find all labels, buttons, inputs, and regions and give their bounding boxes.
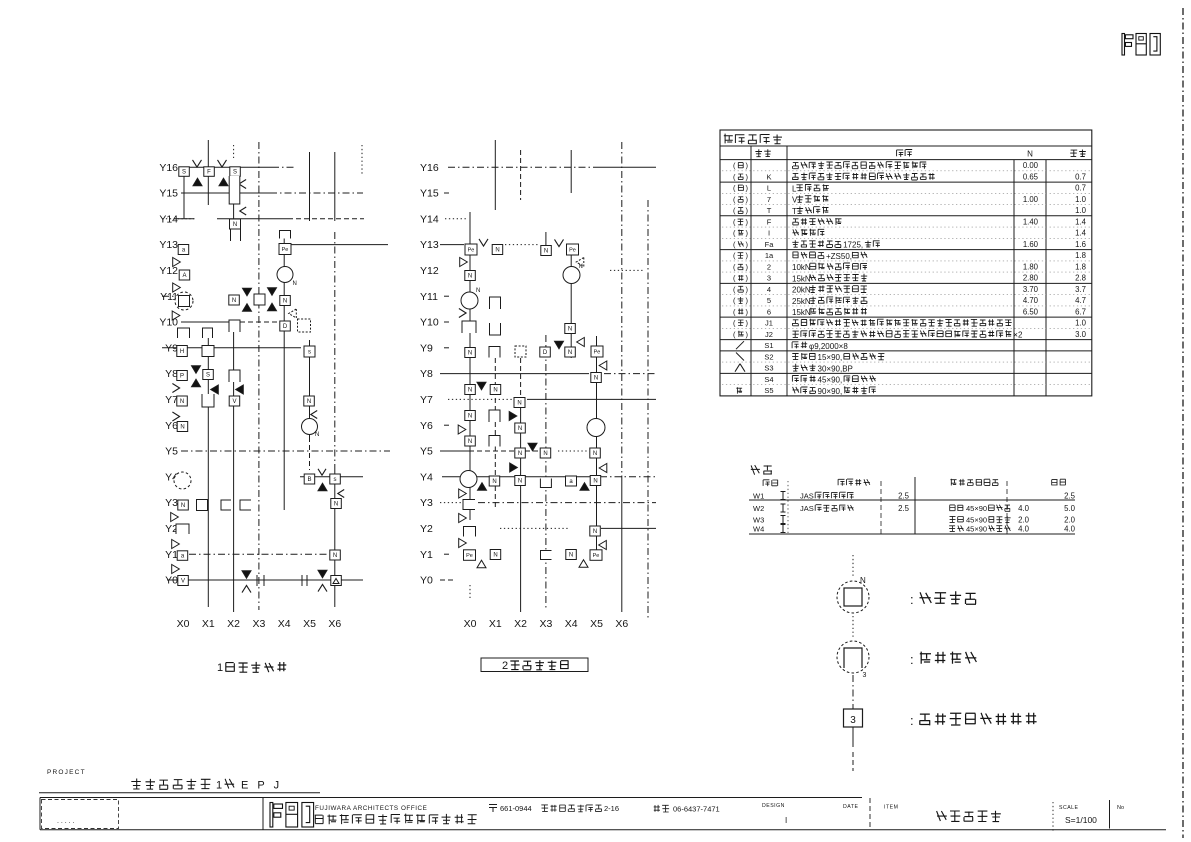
table1 row 2 [720, 173, 1092, 183]
grid line Y6 (1F) with label [165, 420, 186, 432]
table1 row 9 [722, 251, 1090, 261]
project name 尼崎市水堂町1丁EPJ [131, 779, 282, 792]
wall tab @1F X0/Y10 [178, 328, 190, 338]
hardware box N @2F X0/Y7 [465, 411, 476, 421]
FAD logo top right corner [1122, 34, 1160, 56]
hardware box N @2F X4/Y1 [566, 550, 577, 560]
grid line Y5 (2F) with label [420, 446, 588, 458]
svg-text:N: N [544, 249, 548, 255]
open arrow right @1F X0 above Y1 [172, 540, 180, 549]
legend label : 柱頭柱脚共通金物 [910, 713, 1037, 728]
grid line Y8 (2F) with label [420, 368, 656, 380]
wall tab @2F X3/Y4 [540, 479, 551, 488]
table2 title 凡例 [751, 465, 772, 475]
svg-text:N: N [860, 576, 866, 585]
svg-text:FUJIWARA ARCHITECTS OFFICE: FUJIWARA ARCHITECTS OFFICE [315, 805, 427, 812]
filled tri down on Y0 @1F X5.5 [318, 570, 327, 578]
hardware box N @2F X3/Y13 [541, 246, 552, 256]
svg-text:S2: S2 [764, 353, 773, 362]
svg-text:Y15: Y15 [159, 188, 178, 200]
grid line X3 (1F) [258, 142, 260, 610]
grid label X6 (1F) [328, 618, 341, 630]
svg-text::: : [910, 592, 914, 607]
grid line X2 solid (2F) [520, 400, 522, 612]
caption 1F plan title 1階柱壁伏図 [217, 662, 286, 674]
dotted lead above head-hardware symbol [852, 555, 854, 576]
svg-text:DESIGN: DESIGN [762, 803, 785, 809]
hardware box N @2F X0/Y12 [465, 271, 476, 281]
svg-text:(: ( [733, 274, 736, 283]
hardware box N @1F X0/Y7 [177, 396, 188, 406]
svg-text:45×90,: 45×90, [818, 376, 843, 385]
open arrow right @2F X0 below Y13 [460, 258, 468, 267]
project name underline [39, 792, 320, 794]
svg-text::: : [910, 652, 914, 667]
table1 row 4 [722, 195, 1090, 205]
filled tri up @1F X0-X1/Y8 [192, 379, 201, 387]
svg-text:J1: J1 [765, 319, 773, 328]
svg-text:X6: X6 [328, 618, 341, 630]
filled tri up @1F X5-X6/Y4 [318, 483, 327, 491]
half-open tab @1F X2.5/Y3 [240, 500, 251, 510]
table2 vertical divider dashed 1 [880, 481, 882, 534]
svg-text:N: N [334, 502, 338, 508]
svg-text:0.7: 0.7 [1075, 184, 1086, 193]
svg-text:4.0: 4.0 [1064, 525, 1076, 534]
svg-text:N: N [593, 479, 597, 485]
table1 row 15 [722, 319, 1090, 329]
table1 row 8 [720, 240, 1092, 250]
filled tri up @1F X3-X4/Y11 [268, 303, 277, 311]
wall tab @2F X1/Y6 [489, 436, 500, 447]
wall tab below S box @1F X2 [229, 176, 240, 204]
svg-text:X1: X1 [489, 618, 502, 630]
svg-text:N: N [180, 425, 184, 431]
open arrow right @1F X0 below Y12 [173, 283, 181, 292]
legend symbol: head/base common hardware (square 3) [844, 709, 863, 727]
dashed hardware box @1F X5/Y10 [298, 319, 311, 332]
svg-text:Y5: Y5 [165, 446, 178, 458]
table2 vertical divider dashed 3 [787, 481, 789, 534]
svg-text:10kN: 10kN [792, 263, 811, 272]
grid line Y0 (2F) with label [420, 575, 454, 587]
svg-text:s: s [308, 350, 311, 356]
grid line X6 solid (2F) [621, 480, 623, 612]
svg-text:(: ( [733, 173, 736, 182]
svg-text:Y6: Y6 [420, 420, 433, 432]
filled tri down @2F X3-X4/Y9 [555, 341, 564, 349]
hardware box N @1F X5/Y7 [304, 396, 315, 406]
table1 row 19 [720, 364, 1092, 374]
grid line Y16 (1F) with label [159, 162, 295, 174]
table1 outer frame [720, 130, 1092, 396]
wall tab @1F X1/Y7 [202, 394, 214, 407]
svg-text:X6: X6 [615, 618, 628, 630]
dashed open arrow left @1F X4-X5/Y10 [289, 309, 297, 318]
cap tab above Pe @1F X4 [280, 231, 291, 239]
grid line X3 stem (2F) [545, 232, 547, 245]
grid label X4 (1F) [278, 618, 291, 630]
table2 header 記号 [763, 480, 778, 486]
svg-text:Y14: Y14 [159, 213, 178, 225]
column circle @2F X0/Y4 [460, 471, 477, 488]
svg-text:Y13: Y13 [159, 239, 178, 251]
grid line X6 dashdot (2F) [621, 142, 623, 480]
svg-text:N: N [594, 376, 598, 382]
svg-text:N: N [579, 264, 583, 270]
open arrow right @2F X0 below Y4 [459, 489, 467, 498]
open V @2F X3-X4/Y13 [555, 239, 564, 246]
svg-text:2-16: 2-16 [604, 804, 619, 813]
svg-text:4.70: 4.70 [1023, 296, 1039, 305]
svg-text:E P J: E P J [241, 780, 282, 792]
grid label X0 (2F) [464, 618, 477, 630]
svg-text:0.7: 0.7 [1075, 173, 1086, 182]
open arrow left @1F X2/Y16 [239, 180, 246, 189]
svg-text:2.5: 2.5 [898, 504, 910, 513]
open arrow left @1F X6 below Y4 [338, 490, 344, 498]
svg-text:2: 2 [502, 660, 508, 672]
filled tri down @1F X0-X1/Y8 [192, 366, 201, 374]
svg-text:N: N [543, 451, 547, 457]
svg-text:06-6437-7471: 06-6437-7471 [673, 805, 720, 814]
hardware box a @2F X4/Y4 [566, 476, 577, 486]
filled tri right @2F X1-X2/Y7 [509, 412, 517, 421]
hardware box N @2F X2/Y4 [515, 476, 526, 486]
svg-text:SCALE: SCALE [1059, 805, 1079, 811]
company name english [315, 805, 427, 812]
svg-text:(: ( [733, 263, 736, 272]
legend label : 柱脚金物 [910, 652, 976, 667]
svg-text:N: N [493, 553, 497, 559]
svg-text:N: N [293, 281, 297, 287]
svg-text:(: ( [733, 319, 736, 328]
wall tab @2F X0/Y10 [462, 321, 476, 333]
table1 row 21 [736, 386, 876, 396]
svg-text:3.7: 3.7 [1075, 285, 1086, 294]
svg-text:N: N [468, 388, 472, 394]
dash below common hardware symbol [852, 752, 854, 771]
svg-text:): ) [746, 206, 749, 215]
grid line Y13 (2F) with label [420, 239, 538, 251]
table2 header 倍率 [1052, 479, 1066, 485]
grid line X2 dotted top (1F) [233, 145, 235, 160]
open V mark @1F Y16 left [193, 160, 202, 167]
grid line Y13 (1F) with label [159, 239, 388, 251]
legend symbol: column head hardware (dashed circle + square) [837, 576, 869, 613]
svg-text:Y11: Y11 [420, 291, 438, 303]
plain box @1F X1/Y3 [197, 500, 208, 511]
table2 row W1 [753, 492, 1076, 501]
wall tab @2F X0/Y2 [464, 527, 476, 537]
svg-text:S5: S5 [764, 386, 773, 395]
svg-text:Y3: Y3 [420, 497, 433, 509]
hardware box B @1F X5/Y4 [304, 474, 315, 484]
hardware box F @1F X1/Y16 [204, 167, 215, 177]
svg-text:φ9,2000×8: φ9,2000×8 [809, 342, 848, 351]
svg-text:7: 7 [767, 195, 771, 204]
hardware box N @1F X6/Y1 [330, 550, 341, 560]
grid label X1 (2F) [489, 618, 502, 630]
svg-text:N: N [518, 451, 522, 457]
svg-text:X1: X1 [202, 618, 215, 630]
open V @2F X0-X1/Y13 [479, 239, 488, 246]
svg-text:K: K [766, 173, 771, 182]
svg-text:Y12: Y12 [420, 265, 439, 277]
grid line Y14 (2F) with label [420, 213, 468, 225]
svg-text:Y16: Y16 [159, 162, 178, 174]
grid line Y6 (2F) with label [420, 420, 452, 432]
svg-text:45×90: 45×90 [966, 525, 987, 534]
title block divider before logo [262, 798, 264, 830]
grid label X1 (1F) [202, 618, 215, 630]
svg-text:N: N [283, 299, 287, 305]
svg-text:S1: S1 [764, 341, 773, 350]
svg-text:): ) [746, 173, 749, 182]
grid line X0 mid (2F) [469, 255, 471, 520]
svg-text:Y1: Y1 [165, 549, 178, 561]
table1 row 10 [722, 263, 1090, 273]
svg-text:2: 2 [767, 263, 771, 272]
table1 row 13 [722, 296, 1090, 306]
filled tri down @2F X0-X1/Y8 [477, 382, 486, 390]
hardware box Ts @1F X5/Y9 [304, 346, 315, 357]
grid label X4 (2F) [565, 618, 578, 630]
hardware box N @1F X2/Y11 [229, 295, 240, 305]
table1 row 17 [720, 341, 1092, 351]
svg-text:45×90: 45×90 [966, 504, 987, 513]
title block dashed divider before ITEM [869, 798, 871, 830]
table2 vertical divider dashed 2 [1006, 481, 1008, 534]
svg-text:A: A [182, 273, 186, 279]
filled tri down @1F X2-X3/Y11 [243, 288, 252, 296]
svg-text:T: T [792, 207, 797, 216]
open arrow right @1F X0 below Y3 [171, 513, 179, 522]
table1 row 5 [720, 206, 1092, 216]
grid line Y14 (1F) with label [159, 213, 364, 225]
svg-text:661-0944: 661-0944 [500, 804, 532, 813]
svg-text:N: N [468, 439, 472, 445]
svg-text:N: N [468, 274, 472, 280]
svg-text:PROJECT: PROJECT [47, 769, 86, 776]
filled tri down @1F X3-X4/Y11 [268, 288, 277, 296]
title block left border [39, 798, 41, 830]
tick pair on Y0 at X4.8 (1F) [302, 575, 307, 586]
table1 row 12 [722, 285, 1090, 295]
svg-text:): ) [746, 263, 749, 272]
svg-text:Y10: Y10 [420, 317, 439, 329]
svg-text:(: ( [733, 184, 736, 193]
hardware box N @2F X1/Y4 [489, 476, 500, 486]
svg-text:(: ( [733, 195, 736, 204]
svg-text:15kN: 15kN [792, 308, 811, 317]
svg-text:L: L [792, 184, 797, 193]
title block bottom border [40, 829, 1166, 831]
company name 株式会社フジワラ設計事務所 [315, 814, 477, 825]
svg-text:(: ( [733, 229, 736, 238]
hardware box H @1F X0/Y9 [177, 346, 188, 357]
hardware box Pe @2F X0/Y1 [464, 550, 476, 561]
column circle @2F X5/Y6 [587, 419, 605, 437]
column circle @1F X4/Y12 [277, 267, 297, 288]
svg-text:Pe: Pe [594, 350, 601, 356]
svg-text:Y8: Y8 [420, 368, 433, 380]
svg-text:1.40: 1.40 [1023, 218, 1039, 227]
grid line Y2 (2F) with label [420, 523, 656, 535]
hardware box N @2F X0/Y6 [465, 436, 476, 446]
hardware box N @2F X1/Y8 [490, 385, 501, 395]
grid line X2 mid dash (2F) [520, 358, 522, 400]
svg-text:1: 1 [217, 662, 223, 674]
svg-text:F: F [207, 170, 211, 176]
svg-text:): ) [746, 296, 749, 305]
svg-text:W2: W2 [753, 504, 764, 513]
svg-text:N: N [517, 401, 521, 407]
grid line Y5 (1F) with label [165, 446, 390, 458]
svg-text:6.50: 6.50 [1023, 308, 1039, 317]
wall bracket @2F X1 between Y11-Y10 [490, 297, 501, 335]
svg-text:N: N [495, 248, 499, 254]
wall tab @1F X1/Y10 [203, 328, 213, 338]
svg-text::: : [910, 713, 914, 728]
svg-text:1.8: 1.8 [1075, 251, 1086, 260]
hardware box D @1F X4/Y10 [280, 321, 291, 331]
svg-text:1.0: 1.0 [1075, 319, 1087, 328]
grid line X3 dashdot (2F) [545, 335, 547, 610]
grid line X0 upper (2F) [469, 212, 471, 244]
open arrow left @2F X5 below Y9 [599, 361, 607, 370]
column circle @2F X0/Y11 [461, 288, 480, 309]
svg-text:(: ( [733, 206, 736, 215]
svg-text:4.7: 4.7 [1075, 296, 1086, 305]
svg-text:0.65: 0.65 [1023, 173, 1039, 182]
svg-text:N: N [315, 432, 319, 438]
table1 title underline [720, 145, 1092, 147]
filled tri up @1F X2-X3/Y11 [243, 304, 252, 312]
open arrow right @2F X0/Y6 [458, 425, 466, 434]
svg-text:3.0: 3.0 [1075, 330, 1087, 339]
hardware box N @2F X0/Y8 [465, 385, 476, 395]
svg-text:1.8: 1.8 [1075, 263, 1086, 272]
svg-text:W1: W1 [753, 492, 764, 501]
svg-text:6.7: 6.7 [1075, 308, 1086, 317]
svg-text:1.4: 1.4 [1075, 229, 1087, 238]
svg-text:N: N [518, 479, 522, 485]
grid label X2 (2F) [514, 618, 527, 630]
grid line Y7 (1F) with label [165, 394, 186, 406]
grid label X6 (2F) [615, 618, 628, 630]
table2 row W4 [753, 525, 1076, 534]
grid line X6 mid dashdot (1F) [334, 232, 336, 470]
hardware box N @2F X4/Y10 [565, 324, 576, 334]
hardware box N @2F X5/Y5 [590, 448, 601, 458]
svg-text:I: I [768, 229, 770, 238]
svg-text:1a: 1a [765, 251, 774, 260]
svg-text:15×90,: 15×90, [818, 353, 843, 362]
hardware box N @2F X0/Y9 [465, 348, 476, 358]
column circle @2F X4/Y12 [563, 264, 583, 284]
grid line X5 upper (1F) [309, 152, 311, 221]
table1 header underline [720, 159, 1092, 161]
grid line X4 (1F) [283, 232, 285, 510]
filled tri right @2F X1-X2 below Y5 [510, 463, 518, 472]
grid line X2 top dash (2F) [520, 150, 522, 200]
svg-text:5.0: 5.0 [1064, 504, 1076, 513]
grid line X1 upper (1F) [207, 140, 209, 205]
table1 row 16 [720, 330, 1092, 340]
table2 row W2 [753, 504, 1076, 513]
open chevron right @1F X0/Y6 [172, 412, 179, 421]
svg-text:X2: X2 [514, 618, 527, 630]
svg-text:S: S [206, 373, 210, 379]
grid line X0 dotted bottom (2F) [469, 585, 471, 598]
grid label X3 (1F) [252, 618, 265, 630]
hardware box N @2F X2/Y6 [515, 423, 526, 433]
svg-text:): ) [746, 319, 749, 328]
grid line X5 (2F) [596, 336, 598, 560]
DESIGN column label [762, 803, 785, 809]
filled triangle @1F Y16 left [193, 178, 202, 186]
table2 header 筋かいの仕様 [950, 479, 998, 486]
svg-text:(: ( [733, 308, 736, 317]
table1 header 倍率 [1070, 150, 1086, 157]
hardware box N @2F X5/Y4 [590, 476, 601, 486]
svg-text:X5: X5 [303, 618, 316, 630]
svg-text:X0: X0 [464, 618, 477, 630]
svg-text:Y3: Y3 [165, 497, 178, 509]
svg-text:N: N [181, 503, 185, 509]
grid label X2 (1F) [227, 618, 240, 630]
open V @1F X5-X6/Y4 [318, 469, 326, 475]
svg-text:N: N [568, 327, 572, 333]
drawing title 金物配置図 [937, 811, 1001, 822]
company address 〒661-0944 ... [489, 804, 619, 813]
half-open tab @1F X1.7/Y3 [221, 500, 231, 510]
svg-text:20kN: 20kN [792, 286, 811, 295]
grid line Y10 (2F) with label [420, 317, 452, 329]
svg-text:X4: X4 [278, 618, 291, 630]
table2 row W3 [753, 516, 1076, 525]
svg-text:. . . . .: . . . . . [57, 818, 75, 825]
column symbol circled box @1F X0/Y11 [175, 292, 193, 310]
hardware box N @2F X5/Y2 [590, 526, 601, 536]
svg-text:1.80: 1.80 [1023, 263, 1039, 272]
filled triangle @1F Y16 right [219, 178, 228, 186]
hardware box V @1F X2/Y7 [229, 396, 240, 406]
grid line X5 mid (1F) [309, 340, 311, 437]
svg-text:Y9: Y9 [165, 342, 178, 354]
grid line Y0 (1F) with label [165, 575, 363, 587]
table1 row 3 [722, 184, 1090, 194]
svg-text:Y6: Y6 [165, 420, 178, 432]
table1 column line 2 [786, 146, 788, 396]
open triangle @2F X0-X1/Y1 [477, 560, 486, 568]
svg-text:3.70: 3.70 [1023, 285, 1039, 294]
hardware box S @1F X1/Y8 [203, 370, 214, 380]
svg-text:Y0: Y0 [165, 575, 178, 587]
svg-text:Y12: Y12 [159, 265, 178, 277]
plain rect @1F X1/Y9 [202, 346, 214, 357]
dashed tab @2F X2/Y9 [515, 346, 526, 357]
hardware box S @1F X0/Y16 [179, 167, 190, 177]
svg-text:X0: X0 [177, 618, 190, 630]
wall tab @1F X2/Y10 [229, 320, 240, 332]
grid line X2 lower (1F) [233, 332, 235, 612]
caption 2F plan title 2階柱壁伏図 [502, 660, 569, 672]
svg-text:N: N [492, 479, 496, 485]
svg-text:Y15: Y15 [420, 188, 439, 200]
svg-text:B: B [307, 477, 311, 483]
